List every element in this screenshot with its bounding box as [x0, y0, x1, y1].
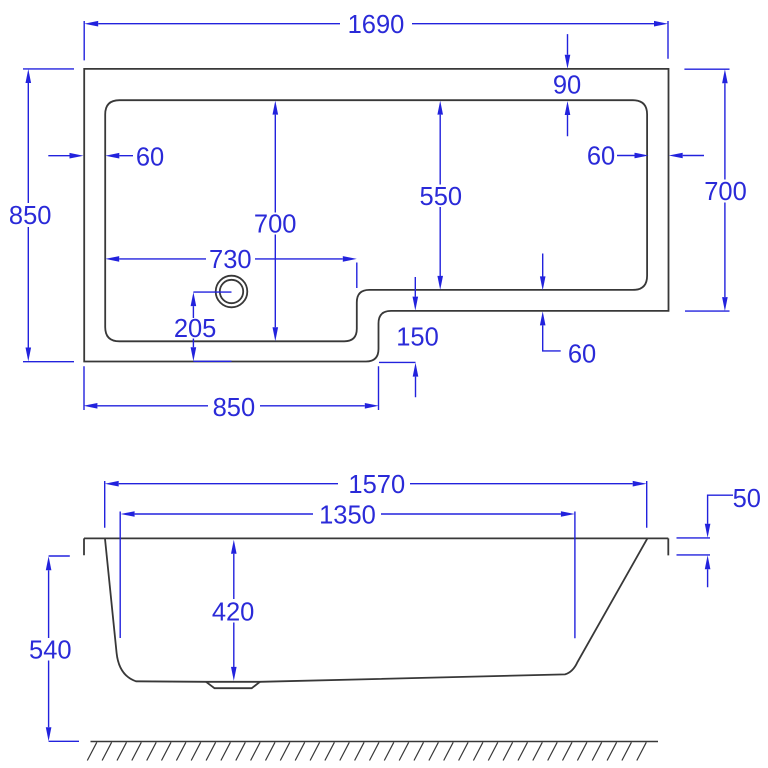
dimension 550 (inner width, shower end): [420, 101, 463, 290]
svg-text:540: 540: [29, 636, 72, 664]
dimension 150 (step depth): [379, 277, 439, 397]
svg-text:850: 850: [9, 202, 52, 230]
dimension 850 (overall width, left): [9, 69, 74, 362]
svg-text:1350: 1350: [319, 502, 376, 530]
dimension 540 (rim underside to floor height, side view): [29, 556, 79, 741]
svg-text:700: 700: [254, 210, 297, 238]
svg-text:60: 60: [568, 341, 596, 369]
svg-text:60: 60: [587, 143, 615, 171]
svg-text:205: 205: [174, 315, 217, 343]
dimension 850 (bathing end length, bottom): [83, 366, 378, 422]
drain recess (side view): [206, 682, 260, 688]
svg-text:850: 850: [213, 394, 256, 422]
dimension 700 (shower end width, right): [684, 69, 746, 311]
svg-text:550: 550: [420, 183, 463, 211]
svg-text:730: 730: [209, 246, 252, 274]
bath body profile (side view): [105, 539, 647, 682]
ground hatching: [87, 742, 646, 760]
svg-text:90: 90: [553, 72, 581, 100]
bath outer rim outline (plan view): [84, 69, 668, 362]
dimension 90 (rim width, top): [553, 34, 581, 136]
dimension 1690 (overall length, top): [84, 11, 668, 60]
dimension 50 (rim lip height, side view): [677, 485, 761, 587]
dimension 60 (rim width, bottom of shower end): [540, 254, 596, 369]
dimension 700 (inner width, bathing end): [254, 101, 297, 342]
svg-text:50: 50: [733, 485, 761, 513]
dimension 420 (inner depth, side view): [212, 540, 255, 681]
drain waste (plan view): [216, 276, 248, 308]
svg-text:150: 150: [396, 324, 439, 352]
dimension 205 (drain offset): [174, 292, 232, 361]
bath rim (side view): [84, 538, 668, 555]
svg-text:420: 420: [212, 598, 255, 626]
dimension 1570 (inner top length, side view): [105, 471, 647, 528]
svg-text:60: 60: [136, 144, 164, 172]
dimension 1350 (inner bottom length, side view): [120, 502, 575, 639]
dimension 730 (inner length, bathing end): [105, 246, 357, 288]
svg-text:1570: 1570: [348, 471, 405, 499]
svg-text:700: 700: [704, 178, 747, 206]
svg-text:1690: 1690: [348, 11, 405, 39]
ground line (side view): [91, 741, 659, 743]
dimension 60 (rim width, right): [587, 143, 704, 171]
dimension 60 (rim width, left): [48, 144, 164, 172]
bath inner tub outline (plan view): [105, 100, 647, 341]
